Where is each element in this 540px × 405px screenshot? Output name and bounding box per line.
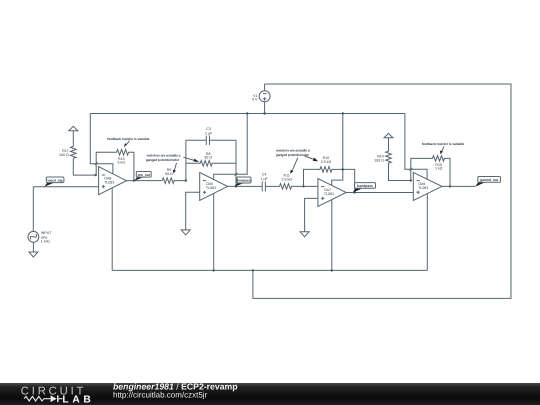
- wire OA6 output row: [228, 185, 263, 187]
- svg-text:2.5 kΩ: 2.5 kΩ: [281, 177, 292, 181]
- svg-text:lowpass: lowpass: [237, 179, 250, 183]
- svg-text:TL081: TL081: [206, 186, 216, 190]
- wire OA6 V- pin: [213, 193, 215, 270]
- capacitor C4: [260, 172, 279, 191]
- resistor R10 feedback: [304, 156, 355, 192]
- svg-text:1 µF: 1 µF: [260, 177, 268, 181]
- junction feedback to output: [133, 179, 135, 181]
- junction OA6 V+ on bus: [246, 112, 248, 114]
- junction V1 bottom on bus: [263, 112, 265, 114]
- wire OA7 output to OA9 plus: [346, 192, 413, 194]
- logo LAB: [62, 394, 94, 405]
- resistor R15 feedback: [411, 156, 450, 187]
- svg-text:50 Ω: 50 Ω: [204, 156, 212, 160]
- wire OA9 output row: [442, 185, 475, 187]
- annotation ganged potentiometer (stage2): [146, 154, 199, 174]
- wire OA9 V- pin: [426, 194, 428, 271]
- resistor R14: [374, 151, 411, 180]
- svg-text:LAB: LAB: [62, 394, 94, 405]
- node flag gained_out: [475, 177, 501, 187]
- wire OA9 V+ from bus: [405, 114, 427, 180]
- svg-text:ganged potentiometer: ganged potentiometer: [146, 158, 180, 162]
- annotation feedback resistor is variable (stage4): [422, 142, 464, 154]
- supply arrow flag stage1: [69, 126, 78, 146]
- junction loop right to output: [235, 185, 237, 187]
- svg-text:TL081: TL081: [418, 186, 428, 190]
- svg-text:9 V: 9 V: [252, 97, 258, 101]
- node flag lowpass: [234, 177, 251, 187]
- junction OA7 V- on bus: [331, 269, 333, 271]
- wire V- bottom bus: [112, 269, 427, 271]
- wire OA8 V+ from bus: [90, 114, 113, 174]
- svg-text:pre_out: pre_out: [138, 173, 151, 177]
- junction OA7 V+ on bus: [342, 112, 344, 114]
- crossing tick OA6 V+ row: [235, 173, 238, 176]
- resistor R17: [59, 146, 96, 175]
- svg-text:1 kHz: 1 kHz: [41, 240, 50, 244]
- svg-text:2.5 kΩ: 2.5 kΩ: [321, 160, 332, 164]
- wire OA8 V- pin: [111, 188, 113, 271]
- node flag pre_out: [134, 172, 151, 181]
- footer title text: [113, 382, 238, 392]
- annotation feedback resistor is variable (stage1): [107, 137, 149, 148]
- wire OA7 plus to ground: [305, 198, 318, 231]
- svg-text:C4: C4: [262, 172, 267, 176]
- wire OA6 plus to ground: [186, 192, 200, 230]
- wire V1 negative loop: [253, 84, 511, 298]
- ground below INPUT: [29, 242, 38, 257]
- wire C3/R8 loop verticals: [186, 140, 236, 186]
- svg-text:gained_out: gained_out: [480, 178, 499, 182]
- svg-text:input_sig: input_sig: [48, 178, 63, 182]
- op-amp OA9: [413, 172, 442, 200]
- svg-text:5 kΩ: 5 kΩ: [118, 161, 126, 165]
- junction R10 jog to output: [354, 191, 356, 193]
- junction R10 row crossing: [342, 168, 344, 170]
- op-amp OA6: [200, 172, 228, 200]
- resistor R11: [280, 174, 318, 190]
- ground below OA6: [181, 230, 190, 235]
- node junction OA8 minus: [94, 174, 96, 176]
- logo waveform: [24, 395, 63, 402]
- ground below OA7: [300, 232, 309, 237]
- svg-text:bandpass: bandpass: [357, 184, 373, 188]
- svg-text:resistors are actually a: resistors are actually a: [276, 149, 310, 153]
- resistor R9: [162, 168, 186, 183]
- svg-text:1 µF: 1 µF: [205, 132, 213, 136]
- svg-text:TL081: TL081: [104, 180, 114, 184]
- wire OA6 V+ from bus: [214, 114, 248, 180]
- annotation ganged potentiometer (stage3): [276, 149, 318, 174]
- junction OA7 minus node: [302, 185, 304, 187]
- node flag input_sig: [44, 177, 64, 187]
- capacitor C3: [186, 127, 236, 145]
- crossing tick stage1 V+ jog: [95, 162, 98, 165]
- wire OA8 output row: [127, 180, 163, 182]
- supply arrow flag stage4: [384, 133, 393, 151]
- svg-text:100 Ω: 100 Ω: [374, 158, 384, 162]
- svg-text:1 kΩ: 1 kΩ: [435, 167, 443, 171]
- node flag bandpass: [353, 183, 376, 193]
- junction R15 to output: [449, 185, 451, 187]
- junction OA9 minus node: [410, 179, 412, 181]
- crossing tick stage4 V+ jog: [409, 168, 412, 171]
- svg-text:50 Ω: 50 Ω: [165, 172, 173, 176]
- svg-text:TL081: TL081: [324, 192, 334, 196]
- svg-text:feedback resistor is variable: feedback resistor is variable: [422, 142, 464, 146]
- svg-text:http://circuitlab.com/czxt5jr: http://circuitlab.com/czxt5jr: [113, 391, 208, 400]
- op-amp OA7: [318, 179, 346, 207]
- resistor R16 feedback: [96, 150, 134, 181]
- source INPUT sine: [28, 187, 52, 244]
- junction OA6 V- on bus: [213, 269, 215, 271]
- voltage source V1: [252, 84, 270, 114]
- footer bar: [0, 383, 540, 405]
- op-amp OA8: [99, 167, 127, 195]
- svg-text:C3: C3: [206, 127, 211, 131]
- footer url text: [113, 391, 208, 400]
- wire OA7 V- pin: [331, 200, 333, 271]
- svg-text:100 Ω: 100 Ω: [59, 153, 69, 157]
- junction OA6 minus node: [185, 179, 187, 181]
- wire OA8 plus input: [33, 186, 98, 188]
- wire OA7 V+ from bus: [332, 114, 343, 186]
- logo CIRCUIT: [21, 386, 86, 398]
- svg-text:feedback resistor is variable: feedback resistor is variable: [107, 137, 149, 141]
- junction bottom bus to V1 loop: [252, 269, 254, 271]
- resistor R8 feedback: [186, 152, 236, 166]
- wire top bus: [90, 113, 405, 115]
